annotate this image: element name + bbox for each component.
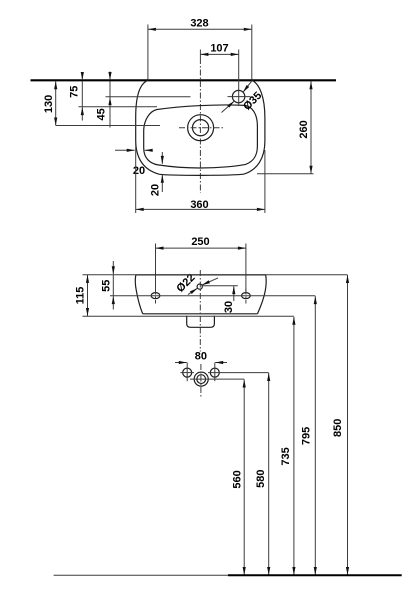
svg-text:795: 795: [301, 427, 313, 445]
dim 850 line: [347, 275, 349, 575]
dim 20 horizontal left tail arrow: [115, 149, 135, 151]
dim 250 extension left: [155, 244, 157, 293]
dim 130 line: [55, 81, 57, 125]
siphon vertical centerline: [200, 364, 202, 397]
body outline right edge: [258, 275, 267, 314]
dim 45 lower tail: [109, 110, 111, 128]
dim 20 vertical bottom tail arrow: [161, 175, 163, 192]
fixing hole right vertical dash: [245, 289, 247, 304]
tap hole front circle: [197, 284, 202, 289]
dim 107 extension right to tap hole: [238, 50, 240, 90]
fixing hole left vertical dash: [155, 289, 157, 304]
siphon outer circle: [194, 372, 208, 386]
dim 30 line with up arrow: [233, 286, 235, 301]
screw left horizontal crosshair: [181, 372, 195, 374]
wall screw circle right: [210, 368, 219, 377]
ref line 260 bottom: [257, 173, 314, 175]
dim 115 line: [87, 275, 89, 316]
svg-text:260: 260: [298, 120, 310, 138]
svg-text:107: 107: [210, 42, 228, 54]
tap hole circle (plan): [232, 90, 244, 102]
tap hole vertical crosshair: [238, 89, 240, 105]
svg-text:20: 20: [133, 165, 145, 177]
ref line tap hole level: [202, 285, 238, 287]
svg-text:130: 130: [43, 95, 55, 113]
dim 260 line: [310, 81, 312, 174]
dim 45 lower tail arrow: [109, 97, 111, 112]
ref line 45 level: [106, 96, 191, 98]
dim 80 right tail arrow: [215, 362, 227, 364]
svg-text:20: 20: [150, 184, 162, 196]
svg-text:115: 115: [75, 287, 87, 305]
body outline bottom edge: [143, 313, 258, 315]
wall line (plan view, top): [31, 79, 337, 81]
ref line 130 level: [56, 125, 160, 127]
dim 45 line: [109, 81, 111, 97]
dim 360 extension left: [135, 143, 137, 213]
floor line right: [228, 574, 402, 576]
dim 55 line: [112, 275, 114, 296]
ref line siphon level to 560: [190, 378, 244, 380]
dim 75 line: [81, 81, 83, 107]
ref line body bottom level: [83, 315, 294, 317]
fixing hole left (oval): [151, 293, 160, 299]
dim 107 line: [200, 53, 238, 55]
fixing holes / 55 level line: [110, 295, 315, 297]
drain outer circle: [188, 115, 214, 141]
dim 328 extension left: [147, 25, 149, 80]
leader Ø22 upper segment with arrow: [202, 278, 218, 285]
dim 360 line: [136, 208, 265, 210]
svg-text:80: 80: [195, 350, 207, 362]
svg-text:75: 75: [69, 86, 81, 98]
body outline top edge: [136, 274, 266, 276]
floor line left: [54, 574, 228, 576]
front view centerline: [199, 270, 201, 352]
svg-text:45: 45: [96, 108, 108, 120]
basin outer outline: [136, 80, 265, 175]
svg-text:360: 360: [190, 199, 208, 211]
dim 20 vertical top tail arrow: [161, 152, 163, 164]
body outline left edge: [135, 275, 142, 314]
dim 45 upper tail arrow: [109, 72, 111, 81]
leader Ø35 upper segment with arrow: [243, 81, 252, 93]
drain inner circle: [193, 120, 209, 136]
drain horizontal crosshair dash: [179, 127, 223, 129]
dim 80 left tail arrow: [175, 362, 187, 364]
dim 55 upper tail arrow: [112, 261, 114, 274]
svg-text:30: 30: [223, 301, 235, 313]
screw left vertical crosshair: [186, 363, 188, 382]
fixing hole right (oval): [242, 293, 251, 299]
siphon inner circle: [197, 375, 206, 384]
tap hole horizontal crosshair: [228, 96, 251, 98]
dim 55 lower tail arrow: [112, 296, 114, 309]
screw right vertical crosshair: [214, 363, 216, 382]
dim 795 line: [314, 296, 316, 575]
svg-text:560: 560: [232, 470, 244, 488]
dim 250 extension right: [245, 244, 247, 293]
drain protrusion: [187, 316, 215, 328]
svg-text:55: 55: [101, 280, 113, 292]
leader Ø35 lower segment with arrow: [222, 101, 235, 112]
svg-text:328: 328: [190, 17, 208, 29]
dim 560 line: [243, 380, 245, 576]
svg-text:735: 735: [280, 447, 292, 465]
svg-text:250: 250: [191, 236, 209, 248]
dim 107 extension left / centerline top: [199, 50, 201, 59]
dim 580 line: [268, 373, 270, 575]
svg-text:850: 850: [332, 419, 344, 437]
dim 735 line: [293, 317, 295, 575]
leader Ø22 lower segment with arrow: [188, 288, 197, 294]
basin inner bowl outline: [144, 105, 258, 168]
dim 328 line: [148, 28, 252, 30]
dim 328 extension right: [251, 25, 253, 80]
wall screw circle left: [183, 368, 192, 377]
dim 75 upper tail arrow: [81, 72, 83, 80]
ref line top edge level: [83, 274, 348, 276]
ref line 75 level: [79, 106, 158, 108]
ref line screws level to 580: [208, 372, 269, 374]
basin centerline (vertical dash-dot): [199, 58, 201, 193]
dim 75 lower tail arrow: [81, 107, 83, 120]
dim 250 line: [156, 247, 246, 249]
dim 360 extension right: [264, 150, 266, 213]
dim 20 horizontal right tail arrow: [145, 149, 153, 151]
svg-text:580: 580: [255, 470, 267, 488]
